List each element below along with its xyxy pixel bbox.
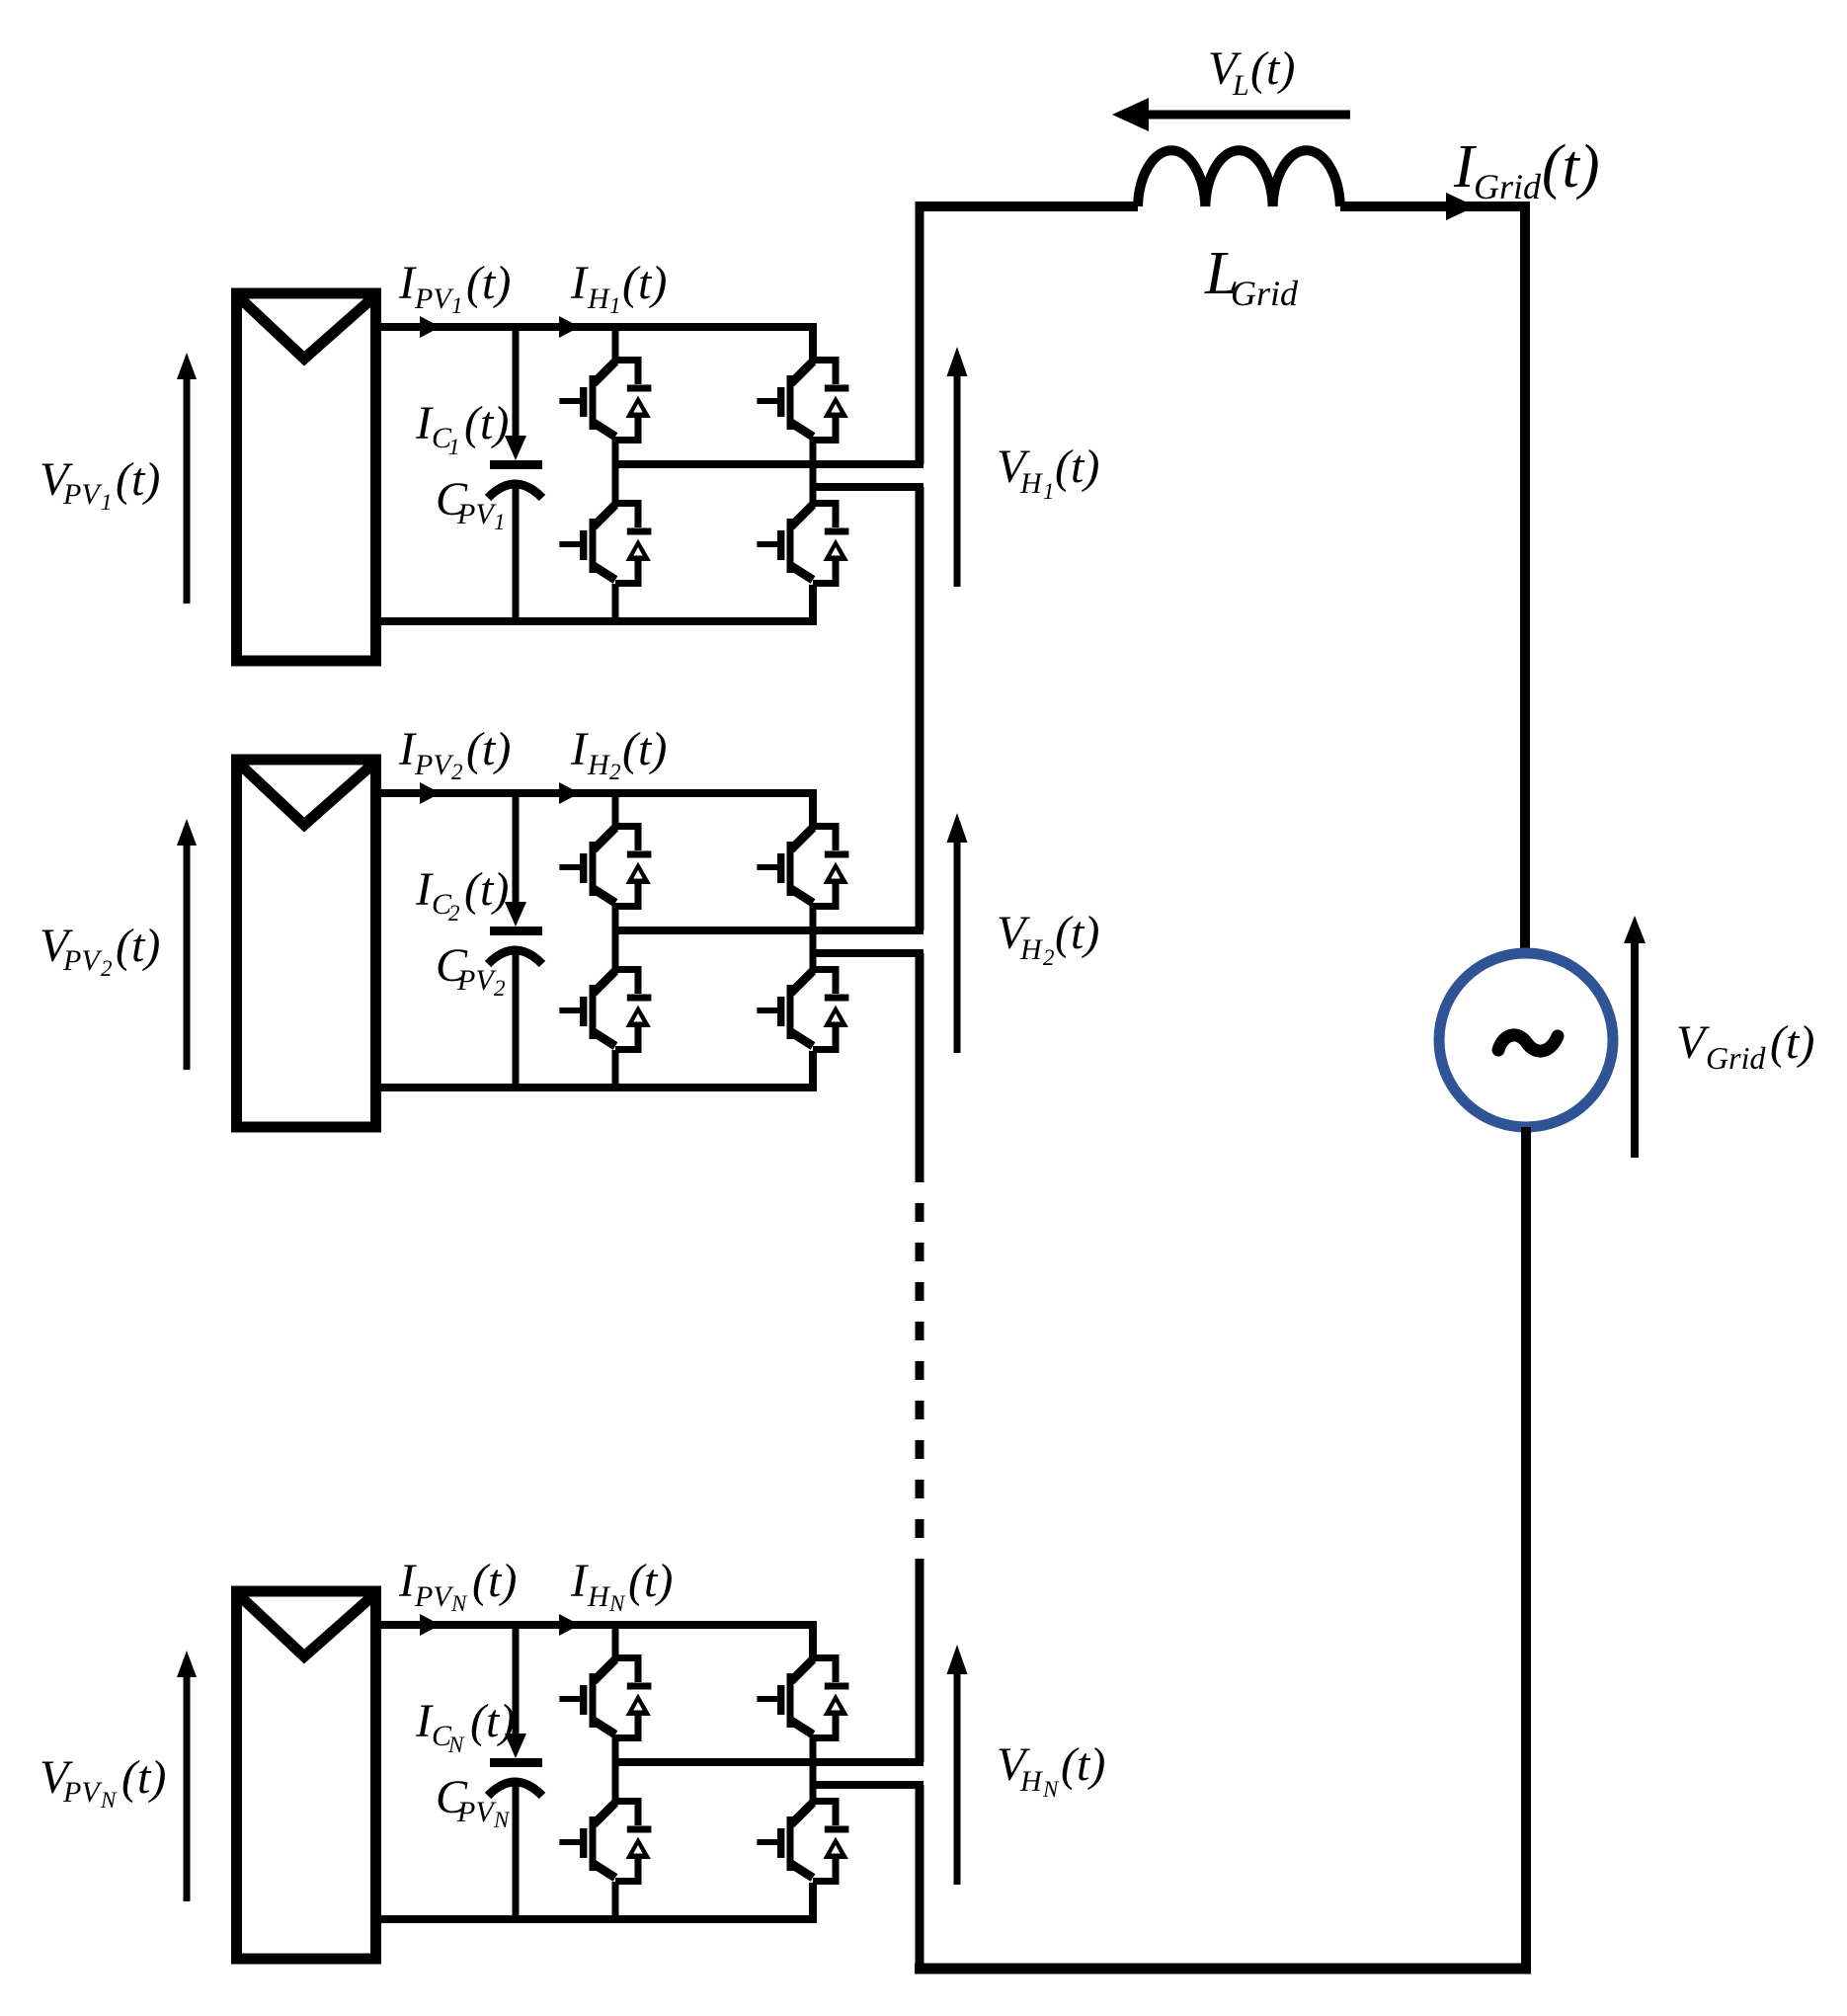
svg-text:1: 1 (494, 510, 506, 534)
svg-text:2: 2 (101, 956, 113, 981)
svg-text:Grid: Grid (1474, 167, 1542, 206)
svg-text:(t): (t) (1055, 907, 1099, 959)
svg-text:(t): (t) (116, 453, 160, 506)
svg-text:H: H (587, 1580, 611, 1613)
svg-text:2: 2 (448, 901, 460, 926)
svg-text:2: 2 (451, 760, 463, 784)
svg-text:I: I (570, 257, 589, 309)
svg-text:I: I (570, 723, 589, 775)
svg-text:Grid: Grid (1231, 274, 1299, 313)
svg-text:(t): (t) (622, 723, 667, 775)
svg-text:2: 2 (609, 760, 621, 784)
svg-text:PV: PV (456, 498, 497, 530)
svg-text:2: 2 (494, 976, 506, 1001)
svg-text:N: N (493, 1808, 511, 1832)
svg-text:PV: PV (62, 944, 103, 977)
svg-text:1: 1 (451, 293, 463, 318)
svg-text:N: N (100, 1788, 118, 1813)
svg-text:I: I (570, 1555, 589, 1607)
svg-text:(t): (t) (121, 1751, 166, 1804)
svg-text:N: N (608, 1591, 626, 1616)
svg-text:Grid: Grid (1706, 1040, 1766, 1076)
svg-text:(t): (t) (464, 863, 509, 916)
svg-text:(t): (t) (1542, 133, 1600, 201)
svg-text:2: 2 (1043, 945, 1055, 970)
svg-text:1: 1 (448, 435, 460, 459)
svg-text:(t): (t) (628, 1555, 673, 1607)
svg-text:PV: PV (414, 282, 454, 315)
svg-text:H: H (587, 282, 611, 315)
svg-text:1: 1 (609, 293, 621, 318)
svg-text:N: N (1042, 1777, 1060, 1802)
svg-text:PV: PV (414, 749, 454, 781)
svg-text:H: H (1019, 933, 1044, 966)
svg-text:1: 1 (101, 490, 113, 515)
svg-text:(t): (t) (1061, 1738, 1105, 1791)
svg-text:(t): (t) (466, 257, 511, 309)
svg-text:(t): (t) (472, 1555, 517, 1607)
svg-text:H: H (1019, 1765, 1044, 1798)
svg-text:N: N (447, 1733, 465, 1757)
svg-text:(t): (t) (466, 723, 511, 775)
svg-text:PV: PV (414, 1580, 454, 1613)
svg-text:L: L (1232, 69, 1249, 102)
svg-text:V: V (1676, 1016, 1710, 1069)
svg-text:PV: PV (456, 1796, 497, 1828)
svg-text:PV: PV (62, 478, 103, 511)
svg-text:N: N (450, 1591, 468, 1616)
svg-text:H: H (587, 749, 611, 781)
svg-text:(t): (t) (116, 920, 160, 972)
svg-text:(t): (t) (464, 397, 509, 449)
svg-text:(t): (t) (1055, 441, 1099, 493)
svg-text:(t): (t) (470, 1695, 515, 1747)
svg-text:PV: PV (62, 1776, 103, 1809)
svg-text:(t): (t) (1250, 42, 1295, 95)
svg-text:(t): (t) (622, 257, 667, 309)
svg-text:PV: PV (456, 964, 497, 997)
svg-text:(t): (t) (1770, 1016, 1814, 1069)
svg-text:1: 1 (1043, 479, 1055, 504)
svg-text:H: H (1019, 467, 1044, 500)
